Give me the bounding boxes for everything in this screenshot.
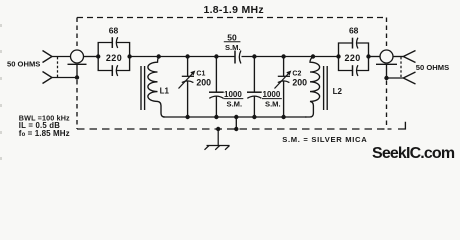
ground bar <box>207 145 230 147</box>
connector J2 flange <box>376 63 397 65</box>
variable capacitor C1 bottom plate <box>182 81 194 83</box>
wire rail to shield <box>235 117 237 129</box>
svg-text:S.M.: S.M. <box>225 43 241 52</box>
variable capacitor C2 arrow <box>275 73 290 89</box>
junction loop right a <box>336 54 340 58</box>
svg-text:50 OHMS: 50 OHMS <box>416 63 449 72</box>
label 1000b bar <box>262 98 282 100</box>
svg-text:220: 220 <box>344 53 360 63</box>
output mating interface dashed <box>400 57 402 78</box>
shield box left edge <box>76 18 78 51</box>
shield box right edge <box>386 18 388 51</box>
inductor L1 core lines <box>141 66 145 110</box>
capacitor 1000a stem <box>215 57 217 93</box>
wire top rail left <box>130 56 235 58</box>
wire input lower <box>52 77 77 79</box>
svg-text:50: 50 <box>227 32 237 42</box>
variable capacitor C1 stem top <box>187 57 189 77</box>
input plug lower prong <box>43 72 53 84</box>
capacitor 220 left straight plate <box>111 65 113 76</box>
inductor L2 core lines <box>324 66 328 110</box>
capacitor 1000a straight plate <box>209 91 224 93</box>
junction ground tap <box>216 127 220 131</box>
capacitor 1000b straight plate <box>247 91 262 93</box>
input plug upper prong <box>43 51 53 63</box>
svg-text:L2: L2 <box>333 87 343 96</box>
junction 1000b top <box>252 54 256 58</box>
variable capacitor C2 stem bottom <box>283 81 285 117</box>
wire bottom rail <box>163 116 307 118</box>
variable capacitor C1 arrow <box>179 73 194 89</box>
junction 1000a top <box>214 54 218 58</box>
ground tick right <box>225 146 230 150</box>
junction loop left a <box>96 54 100 58</box>
junction shell left <box>75 75 79 79</box>
wire output upper <box>393 56 403 58</box>
capacitor 68 right straight plate <box>352 38 354 49</box>
connector J1 circle <box>71 50 84 63</box>
capacitor 1000b stem bottom <box>253 97 255 118</box>
svg-text:220: 220 <box>106 53 122 63</box>
capacitor 1000a stem bottom <box>215 97 217 118</box>
variable capacitor C1 stem bottom <box>187 81 189 117</box>
capacitor 220 right straight plate <box>352 65 354 76</box>
capacitor 50 SM curved plate <box>239 51 241 64</box>
connector J2 stem <box>386 64 388 78</box>
junction rail shield top <box>234 115 238 119</box>
wire input upper <box>52 56 71 58</box>
capacitor 1000a curved plate <box>209 96 223 98</box>
junction C2 bottom <box>281 115 285 119</box>
svg-text:SeekIC.com: SeekIC.com <box>372 145 455 162</box>
wire top rail right <box>242 56 339 58</box>
junction C1 bottom <box>185 115 189 119</box>
connector J1 flange <box>68 63 87 65</box>
svg-text:68: 68 <box>109 26 119 36</box>
output plug upper prong <box>403 51 415 63</box>
variable capacitor C1 top plate <box>182 75 194 77</box>
ground tick middle <box>215 146 220 150</box>
junction C2 top <box>281 54 285 58</box>
junction L2 top <box>311 54 315 58</box>
svg-text:68: 68 <box>349 26 359 36</box>
wire output lower <box>387 77 404 79</box>
inductor L1 <box>148 57 165 118</box>
svg-text:1000: 1000 <box>224 90 242 99</box>
shield box bottom tail <box>388 122 406 130</box>
connector J1 stem <box>76 64 78 77</box>
right coupling loop frame <box>339 43 369 71</box>
junction loop right b <box>366 54 370 58</box>
svg-text:S.M. = SILVER MICA: S.M. = SILVER MICA <box>282 135 367 144</box>
label 1000a bar <box>224 98 244 100</box>
svg-text:S.M.: S.M. <box>265 99 281 108</box>
junction 1000a bottom <box>214 115 218 119</box>
ground tick left <box>205 146 210 150</box>
shield box left edge lower <box>76 80 78 129</box>
inductor L2 <box>305 57 320 118</box>
junction rail shield bottom <box>234 127 238 131</box>
output plug lower prong <box>403 72 415 84</box>
svg-text:1.8-1.9 MHz: 1.8-1.9 MHz <box>203 4 264 16</box>
capacitor 220 right curved plate <box>357 65 358 76</box>
svg-text:1000: 1000 <box>263 90 281 99</box>
capacitor 220 left curved plate <box>116 65 117 76</box>
capacitor 1000b curved plate <box>247 96 261 98</box>
shield box bottom edge <box>77 128 387 130</box>
wire connector to loop <box>84 56 99 58</box>
junction loop left b <box>127 54 131 58</box>
svg-text:C2: C2 <box>292 70 301 77</box>
left coupling loop frame <box>98 43 129 71</box>
label 50 fraction bar <box>224 41 241 43</box>
capacitor 68 right curved plate <box>357 38 358 49</box>
svg-text:fo = 1.85 MHz: fo = 1.85 MHz <box>19 129 70 138</box>
svg-text:200: 200 <box>196 78 211 88</box>
shield box top edge <box>77 17 387 19</box>
input mating interface dashed <box>57 57 59 77</box>
capacitor 1000b stem <box>253 57 255 93</box>
capacitor 68 left curved plate <box>116 37 117 48</box>
variable capacitor C2 bottom plate <box>278 81 290 83</box>
wire loop to connector right <box>369 56 381 58</box>
junction C1 top <box>185 54 189 58</box>
connector J2 circle <box>380 50 393 63</box>
svg-text:C1: C1 <box>196 70 205 77</box>
junction shell right <box>384 76 388 80</box>
junction L1 top <box>157 54 161 58</box>
svg-text:S.M.: S.M. <box>227 99 243 108</box>
svg-text:200: 200 <box>292 78 307 88</box>
capacitor 50 SM straight plate <box>234 51 236 64</box>
svg-text:50 OHMS: 50 OHMS <box>7 59 40 68</box>
junction 1000b bottom <box>252 115 256 119</box>
capacitor 68 left straight plate <box>111 37 113 48</box>
shield box right edge lower <box>386 81 388 127</box>
variable capacitor C2 top plate <box>278 75 290 77</box>
scan smudge marks left edge <box>0 24 2 160</box>
variable capacitor C2 stem top <box>283 57 285 77</box>
svg-text:L1: L1 <box>160 86 170 95</box>
ground stem <box>217 129 219 146</box>
